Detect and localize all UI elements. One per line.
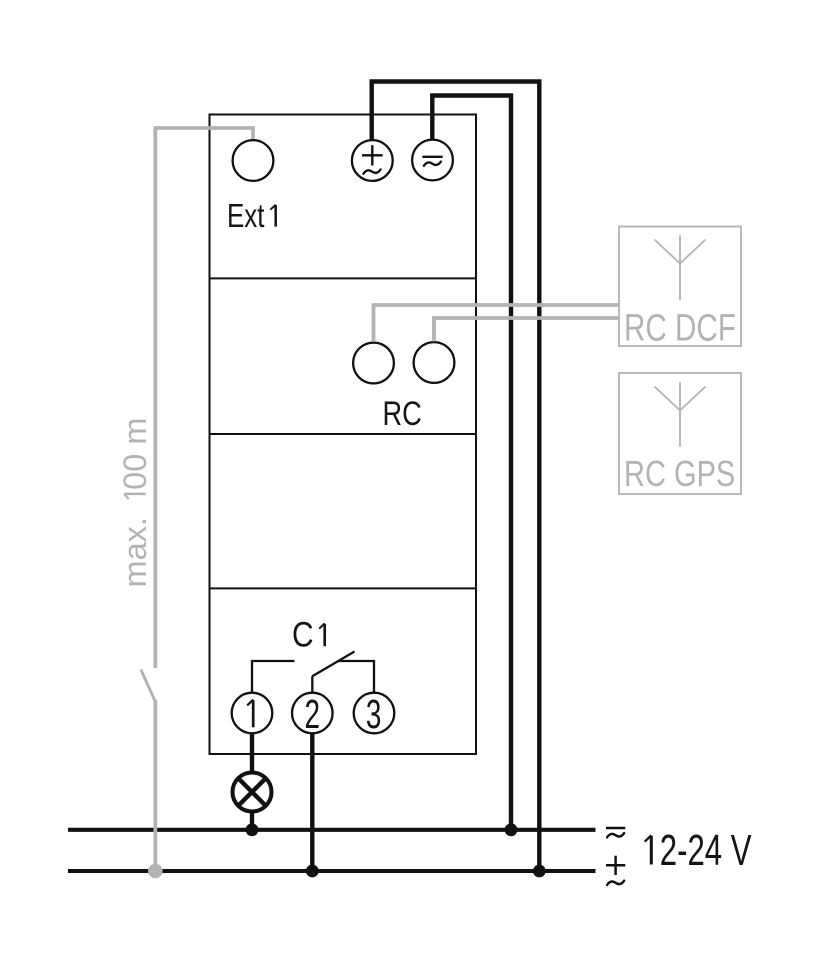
svg-text:2-24 V: 2-24 V — [660, 827, 752, 875]
svg-text:C: C — [292, 614, 314, 654]
svg-text:2: 2 — [305, 692, 321, 738]
svg-text:RC DCF: RC DCF — [624, 307, 736, 349]
svg-text:00 m: 00 m — [117, 418, 153, 490]
svg-text:Ext: Ext — [227, 198, 265, 235]
svg-text:max.: max. — [117, 517, 153, 587]
svg-text:3: 3 — [366, 692, 382, 738]
svg-text:RC: RC — [383, 394, 422, 433]
svg-text:RC GPS: RC GPS — [624, 453, 735, 494]
